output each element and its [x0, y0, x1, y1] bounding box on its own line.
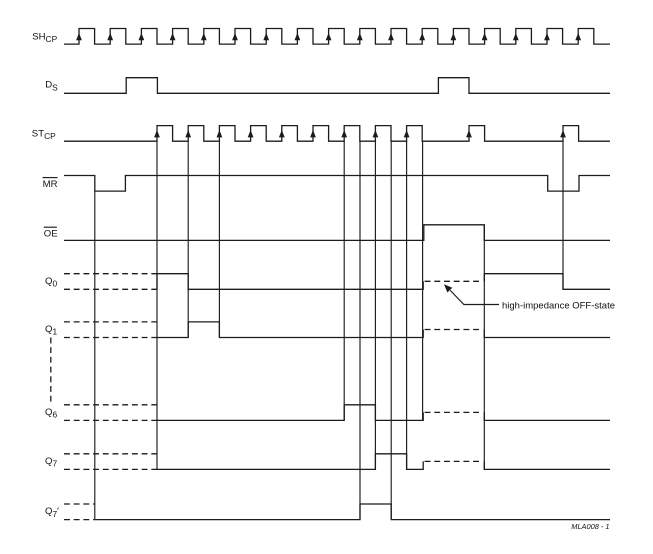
Q7' undefined dashes [64, 504, 95, 520]
Q1 undefined dashes [64, 322, 157, 338]
Q7' waveform [95, 504, 610, 520]
STcp edge 7 to Q6 event line [343, 141, 345, 420]
Ds data waveform [64, 78, 610, 94]
STcp edge 2 to Q1 event line [187, 141, 189, 337]
svg-text:Q7′: Q7′ [45, 506, 59, 519]
svg-text:Q0: Q0 [45, 276, 57, 289]
Q7 waveform [157, 454, 423, 470]
dashed connector between Q1 and Q6 labels [50, 338, 52, 406]
Q0 waveform after OE [484, 274, 610, 290]
Q1 high-impedance dashed mid level [425, 329, 483, 331]
STcp last edge to Q0 event line [562, 141, 564, 289]
SHcp clock waveform [64, 29, 610, 45]
Q0 undefined dashes [64, 274, 157, 290]
Q6 waveform after OE [484, 412, 610, 420]
svg-text:Q1: Q1 [45, 324, 57, 337]
STcp fall to Q6 event line [422, 141, 424, 420]
svg-text:MLA008 - 1: MLA008 - 1 [571, 522, 609, 531]
svg-text:Q7: Q7 [45, 456, 57, 469]
svg-text:OE: OE [44, 228, 58, 239]
svg-text:high-impedance OFF-state: high-impedance OFF-state [502, 300, 615, 311]
STcp edge 9 to Q7 event line [406, 141, 408, 469]
SHcp shift to Q7' rise event line [359, 141, 361, 519]
MR waveform [64, 176, 610, 192]
OE waveform [64, 225, 610, 241]
svg-text:MR: MR [43, 179, 58, 190]
STcp edge 8 to Q7 event line [374, 141, 376, 469]
Q1 waveform after OE [484, 330, 610, 338]
STcp edge 3 to Q1 event line [218, 141, 220, 337]
MR reset to Q7' event line [94, 191, 96, 519]
high-impedance annotation leader line [450, 290, 499, 304]
Q1 waveform [157, 322, 423, 338]
OE fall event line [483, 225, 485, 470]
STcp edge 1 to Q0/Q7 event line [156, 141, 158, 469]
STcp rising-edge arrows [154, 130, 566, 137]
SHcp rising-edge arrows [76, 33, 581, 40]
high-impedance annotation arrowhead [444, 284, 452, 292]
svg-text:Q6: Q6 [45, 407, 57, 420]
Q6 high-impedance dashed mid level [425, 411, 483, 413]
svg-text:DS: DS [45, 80, 58, 93]
svg-text:STCP: STCP [32, 129, 56, 142]
Q6 undefined dashes [64, 405, 157, 421]
Q7 waveform after OE [484, 461, 610, 469]
svg-text:SHCP: SHCP [32, 31, 57, 44]
STcp clock waveform [64, 126, 610, 142]
Q7 high-impedance dashed mid level [425, 460, 483, 462]
Q7 undefined dashes [64, 454, 157, 470]
Q0 high-impedance dashed mid level [425, 280, 483, 282]
Q0 waveform [157, 274, 423, 290]
Q6 waveform [157, 405, 423, 421]
SHcp shift to Q7' fall event line [390, 141, 392, 519]
